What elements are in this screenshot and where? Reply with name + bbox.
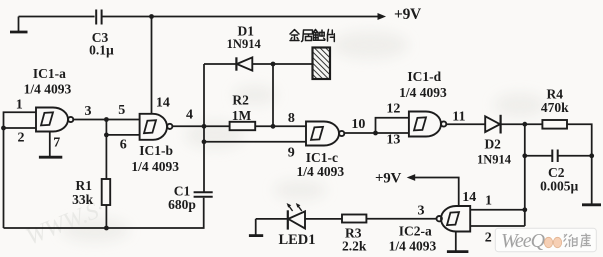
- wire: IC1-c pin 8: [273, 125, 306, 127]
- svg-text:8: 8: [288, 111, 295, 126]
- diode D1 (1N914, cathode left): [236, 57, 252, 70]
- svg-text:1/4 4093: 1/4 4093: [389, 239, 437, 254]
- svg-text:1: 1: [485, 193, 492, 208]
- svg-text:+9V: +9V: [375, 171, 401, 187]
- svg-text:0.005µ: 0.005µ: [540, 178, 578, 193]
- op-amp U: NAND gate IC1-c: [306, 122, 344, 146]
- wire: left feedback drop to bottom rail: [3, 128, 5, 228]
- svg-text:1/4 4093: 1/4 4093: [24, 82, 72, 97]
- wire: IC1-a pin 7 to ground: [49, 132, 51, 157]
- ground (R4/C2 right): [582, 203, 601, 206]
- wire: D1 anode to touch plate: [252, 63, 312, 65]
- svg-text:680p: 680p: [168, 197, 196, 212]
- node: pin 6 tie junction: [104, 133, 109, 138]
- svg-text:0.1µ: 0.1µ: [89, 43, 114, 58]
- wire: IC2-a pin 2: [470, 225, 525, 227]
- svg-text:12: 12: [386, 101, 400, 116]
- wire: IC1-b output pin 4 to node X: [172, 125, 204, 127]
- diode D2 (1N914, anode left): [485, 115, 500, 134]
- wire: C2 left lead: [525, 155, 552, 157]
- svg-text:IC1-c: IC1-c: [306, 150, 338, 165]
- wire: D1 branch top: [204, 63, 236, 65]
- op-amp U: NAND gate IC1-a: [36, 108, 73, 132]
- svg-text:14: 14: [156, 95, 170, 110]
- node: R2/pin8 junction: [271, 124, 276, 129]
- wire: D2 cathode to R4: [501, 123, 543, 125]
- capacitor C2: [552, 150, 557, 163]
- svg-text:LED1: LED1: [278, 232, 315, 248]
- svg-text:9: 9: [288, 146, 295, 161]
- wire: IC1-d pin 12 loop: [376, 118, 409, 133]
- svg-text:1/4 4093: 1/4 4093: [296, 164, 344, 179]
- wire: R1 to bottom rail: [105, 205, 107, 228]
- wire: C2 right lead: [558, 155, 592, 157]
- wire: IC1-b pin 14 to +9V rail: [151, 17, 153, 114]
- svg-text:1M: 1M: [232, 108, 252, 123]
- node: C2 left junction: [522, 153, 527, 158]
- node: C2 right junction: [589, 153, 594, 158]
- wire: IC2-a pin 7 to ground: [455, 232, 457, 251]
- svg-text:R1: R1: [76, 178, 93, 193]
- wire: junction down to pin 6 and R1: [105, 120, 107, 180]
- svg-text:2: 2: [18, 131, 25, 146]
- svg-text:1: 1: [16, 98, 23, 113]
- label 金属触片 (metal touch piece): [290, 30, 334, 42]
- resistor R3: [342, 215, 366, 223]
- wire: top rail left (ground to C3): [19, 16, 95, 18]
- LED1 emission arrows: [287, 203, 302, 211]
- svg-text:3: 3: [85, 104, 92, 119]
- svg-text:IC2-a: IC2-a: [399, 224, 432, 239]
- watermark WeeQoo box: [495, 228, 596, 252]
- wire: R2 to node Y: [255, 125, 273, 127]
- svg-text:WeeQ: WeeQ: [501, 230, 546, 252]
- svg-text:IC1-b: IC1-b: [139, 143, 173, 158]
- svg-text:D2: D2: [484, 137, 501, 152]
- svg-text:33k: 33k: [72, 192, 94, 207]
- node: pin 9 junction on node X: [202, 139, 207, 144]
- wire: node X to R2: [204, 125, 230, 127]
- node: IC1-d input tie junction: [373, 131, 378, 136]
- ground (IC1-a pin 7): [39, 156, 62, 159]
- wire: R3 to LED1 anode: [305, 218, 342, 220]
- wire: IC1-d output pin 11 to D2: [446, 123, 485, 125]
- svg-text:2: 2: [485, 231, 492, 246]
- op-amp U: NAND gate IC1-b: [140, 114, 173, 140]
- svg-text:WWW.S··: WWW.S··: [23, 194, 114, 251]
- LED LED1 (cathode left): [288, 210, 305, 229]
- svg-text:5: 5: [118, 103, 125, 118]
- ground (IC2-a pin 7): [447, 250, 469, 253]
- node: IC2-a pin 1 junction: [522, 207, 527, 212]
- svg-text:IC1-d: IC1-d: [407, 69, 441, 84]
- capacitor C3: [96, 10, 101, 25]
- wire: IC1-c pin 9: [204, 141, 306, 143]
- ground (top-left): [10, 17, 28, 33]
- wire: IC2-a pin 1: [470, 209, 525, 211]
- node: top rail junction to IC1-b pin 14: [149, 14, 154, 19]
- faint scan smudges (decorative): [61, 31, 546, 242]
- svg-text:1N914: 1N914: [477, 153, 512, 167]
- metal touch plate: [313, 48, 331, 80]
- wire: IC1-c output pin 10 to IC1-d pin 13: [344, 132, 409, 134]
- wire: IC2-a pin 14 to +9V arrow: [407, 174, 459, 206]
- resistor R1: [102, 179, 111, 205]
- svg-text:+9V: +9V: [394, 6, 422, 23]
- capacitor C1: [194, 192, 213, 197]
- ground (LED1): [249, 219, 263, 236]
- svg-text:470k: 470k: [541, 100, 569, 115]
- svg-text:14: 14: [462, 190, 476, 205]
- svg-text:IC1-a: IC1-a: [33, 66, 66, 81]
- svg-text:1/4 4093: 1/4 4093: [131, 159, 179, 174]
- svg-text:D1: D1: [238, 23, 255, 38]
- node: D1/R2/touch junction: [271, 62, 276, 67]
- node X: pin4/R2/D1/C1/pin9 junction: [202, 124, 207, 129]
- wire: IC1-a output pin 3 to IC1-b pin 5: [73, 119, 139, 121]
- svg-text:6: 6: [120, 138, 127, 153]
- svg-text:R2: R2: [232, 93, 249, 108]
- wire: R4 to right ground drop: [567, 124, 592, 203]
- wire: IC2-a output pin 3 to R3: [366, 218, 436, 220]
- svg-text:11: 11: [452, 110, 465, 125]
- svg-text:13: 13: [386, 133, 400, 148]
- wire: D2 node down to IC2-a inputs: [524, 124, 526, 226]
- svg-text:1/4 4093: 1/4 4093: [399, 85, 447, 100]
- node: R1 bottom junction: [104, 226, 109, 231]
- svg-text:3: 3: [418, 204, 425, 219]
- wire: IC1-b pin 6: [106, 134, 139, 136]
- node: oscillator input junction: [104, 117, 109, 122]
- resistor R4: [542, 120, 567, 129]
- op-amp U: NAND gate IC2-a (mirrored): [437, 206, 471, 232]
- wire: top rail right (C3 to +9V arrow): [101, 13, 386, 20]
- op-amp U: NAND gate IC1-d: [409, 112, 446, 137]
- svg-text:10: 10: [351, 117, 365, 132]
- wire: IC1-a input loop (pins 1,2 tied): [4, 112, 37, 128]
- resistor R2: [230, 122, 256, 130]
- svg-text:1N914: 1N914: [227, 37, 262, 51]
- wire: node X vertical (D1 branch down to C1): [203, 64, 205, 192]
- node: IC1-a pin 2 junction to feedback rail: [1, 126, 6, 131]
- svg-text:7: 7: [53, 135, 60, 150]
- wire: node Y vertical: [272, 64, 274, 126]
- svg-text:4: 4: [186, 108, 193, 123]
- wire: bottom feedback rail: [4, 198, 204, 228]
- node: D2/R4/C2 junction: [522, 122, 527, 127]
- svg-text:2.2k: 2.2k: [342, 239, 367, 254]
- wire: LED1 cathode to ground: [256, 218, 288, 220]
